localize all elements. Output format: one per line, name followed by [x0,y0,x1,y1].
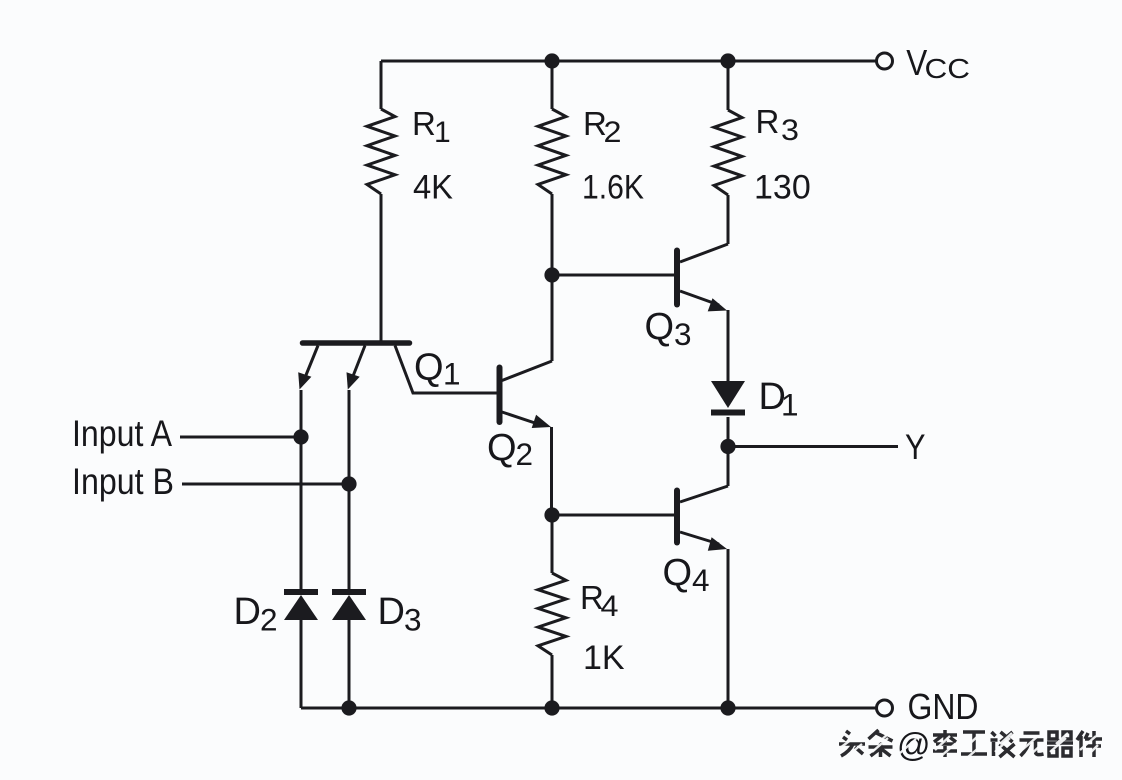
svg-text:2: 2 [604,116,622,149]
svg-text:D: D [378,591,405,633]
svg-text:Q: Q [414,347,444,389]
svg-text:Input A: Input A [72,413,172,454]
svg-text:2: 2 [516,436,534,472]
svg-text:Q: Q [487,427,517,469]
svg-text:1.6K: 1.6K [582,169,644,207]
svg-text:1K: 1K [583,639,625,677]
svg-text:CC: CC [925,53,971,84]
svg-text:Q: Q [663,552,693,594]
svg-text:1: 1 [443,356,461,392]
svg-text:@: @ [897,726,931,763]
svg-text:1: 1 [434,116,451,149]
svg-text:D: D [234,591,261,633]
svg-text:130: 130 [754,169,811,207]
svg-text:3: 3 [674,316,692,352]
svg-text:R: R [412,105,436,142]
svg-text:4K: 4K [413,169,453,207]
svg-text:2: 2 [260,602,278,638]
svg-text:GND: GND [908,686,979,727]
svg-text:3: 3 [781,114,799,147]
svg-text:Y: Y [905,428,926,467]
svg-text:4: 4 [692,562,710,598]
svg-text:R: R [756,103,780,140]
svg-text:Q: Q [645,306,675,348]
svg-text:1: 1 [781,387,799,423]
svg-text:3: 3 [404,602,422,638]
svg-text:Input B: Input B [72,461,174,502]
svg-text:4: 4 [601,590,619,623]
